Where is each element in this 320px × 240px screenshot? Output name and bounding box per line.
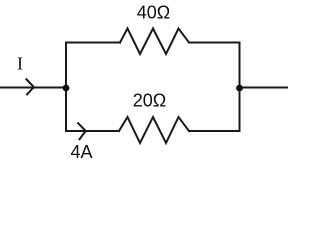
svg-text:I: I — [17, 54, 23, 74]
current arrow 4A (chevron on bottom branch) — [77, 122, 85, 140]
svg-text:4A: 4A — [70, 142, 92, 162]
wire: top-right horizontal — [189, 42, 240, 44]
node: left junction — [63, 85, 70, 92]
svg-text:20Ω: 20Ω — [133, 90, 166, 110]
current arrow I (chevron on input lead) — [26, 79, 34, 96]
wire: bottom-left horizontal — [66, 130, 119, 132]
resistor R2 20Ω (zigzag, bottom branch) — [119, 117, 189, 143]
wire: top-left horizontal — [66, 42, 120, 44]
wire: right vertical branch — [239, 43, 241, 132]
svg-text:40Ω: 40Ω — [137, 2, 170, 22]
node: right junction — [236, 85, 243, 92]
wire: input lead left — [1, 87, 66, 89]
resistor R1 40Ω (zigzag, top branch) — [120, 29, 189, 55]
wire: output lead right — [240, 87, 288, 89]
wire: left vertical branch — [65, 43, 67, 132]
wire: bottom-right horizontal — [189, 130, 240, 132]
